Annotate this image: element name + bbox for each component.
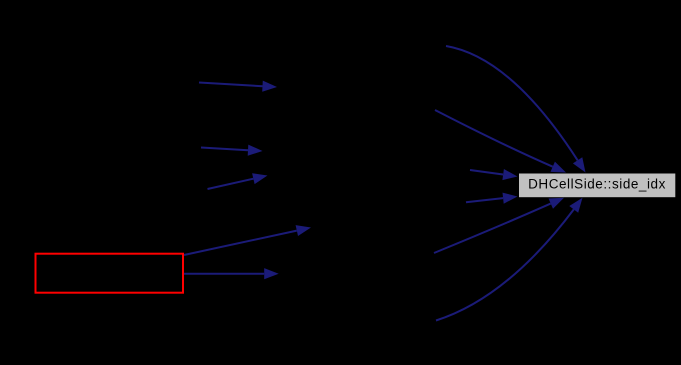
svg-text:DHCellSide::side_idx: DHCellSide::side_idx <box>528 177 666 192</box>
edge arrow B4 (into side_idx left bottom) <box>466 193 518 204</box>
node box: current function (red highlighted) <box>36 254 184 293</box>
edge arrow A5 (from red node, horizontal) <box>184 268 279 279</box>
edge arrow A1 (caller to hidden node) <box>199 81 277 92</box>
edge arrow A4 (from red node, ascending) <box>184 225 311 255</box>
edge arrow A3 (caller to hidden node) <box>208 173 268 189</box>
edge curve B5 (lower caller to side_idx) <box>434 198 564 253</box>
edge arrow B3 (into side_idx left top) <box>470 169 518 180</box>
node box: DHCellSide::side_idx (gray) <box>519 174 675 198</box>
edge arrow A2 (caller to hidden node) <box>201 145 263 156</box>
edge curve B6 (bottom caller to side_idx) <box>436 198 583 321</box>
edge curve B1 (top caller to side_idx) <box>446 46 586 173</box>
edge curve B2 (upper caller to side_idx) <box>435 110 566 173</box>
